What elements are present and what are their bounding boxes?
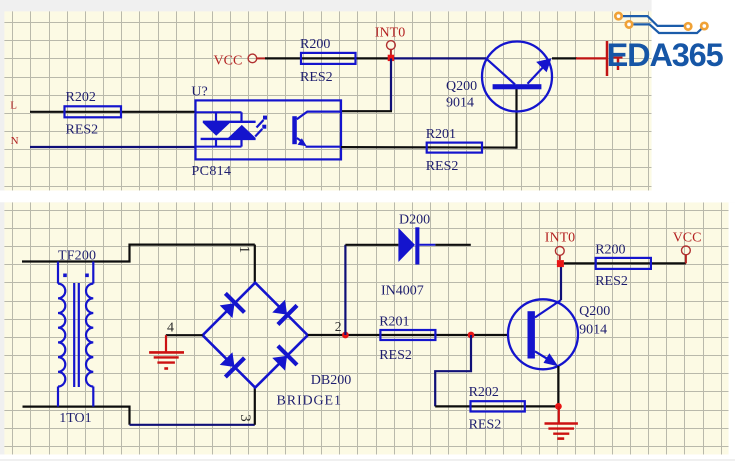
svg-text:R201: R201 — [426, 127, 456, 142]
svg-text:R202: R202 — [66, 90, 96, 105]
svg-text:Q200: Q200 — [579, 304, 610, 319]
svg-text:3: 3 — [237, 414, 253, 422]
white right margin of bottom sheet — [729, 202, 735, 454]
power bar — [606, 41, 609, 76]
bottom schematic sheet — [4, 202, 728, 454]
svg-text:D200: D200 — [399, 213, 430, 228]
svg-text:Q200: Q200 — [446, 79, 477, 94]
diode D200 — [398, 228, 415, 262]
opto LED pair — [196, 112, 267, 146]
svg-text:9014: 9014 — [579, 322, 607, 337]
junction INT0 (bottom) — [557, 260, 564, 267]
logo pad 1 — [615, 13, 621, 19]
svg-text:U?: U? — [191, 85, 207, 100]
wire bridge pin1 drop — [254, 245, 256, 283]
logo pad 4 — [701, 23, 707, 29]
wire junction up to D200 — [344, 245, 346, 335]
svg-text:R201: R201 — [379, 315, 409, 330]
junction at pin2 — [342, 332, 349, 339]
bridge diode bottom-right — [269, 346, 297, 374]
wire to D200 anode — [345, 244, 398, 246]
svg-text:RES2: RES2 — [426, 159, 459, 174]
svg-text:DB200: DB200 — [311, 373, 351, 388]
bottom sheet grid — [4, 202, 728, 454]
junction emitter/R202 — [555, 403, 562, 410]
white bottom band — [0, 455, 735, 460]
svg-text:RES2: RES2 — [300, 70, 333, 85]
white gap band between sheets — [0, 191, 735, 203]
svg-text:R200: R200 — [595, 242, 625, 257]
resistor R202 — [65, 106, 122, 117]
top schematic sheet — [4, 11, 651, 190]
svg-text:VCC: VCC — [673, 230, 702, 245]
optocoupler U? box — [196, 100, 342, 159]
wire INT0 to R200 to VCC — [564, 262, 686, 264]
svg-text:INT0: INT0 — [545, 230, 575, 245]
ground (emitter) — [545, 406, 578, 438]
wire emitter down — [557, 366, 559, 406]
wire opto collector — [341, 110, 392, 112]
wire collector up to INT0 junction — [560, 264, 562, 300]
junction R201 out — [468, 332, 475, 339]
svg-text:RES2: RES2 — [66, 123, 99, 138]
svg-text:INT0: INT0 — [375, 26, 405, 41]
transformer TF200 — [58, 262, 93, 407]
wire junction down to opto collector — [390, 58, 392, 111]
logo pad 2 — [626, 21, 632, 27]
wire R201 up to transistor base — [515, 88, 517, 149]
svg-text:N: N — [11, 135, 19, 147]
resistor R200 (bottom) — [596, 258, 651, 269]
svg-text:9014: 9014 — [446, 96, 474, 111]
bridge diode top-right — [269, 297, 297, 325]
svg-text:L: L — [10, 100, 17, 112]
junction INT0 — [388, 55, 394, 61]
bridge diode top-left — [217, 293, 245, 321]
svg-text:1TO1: 1TO1 — [59, 411, 91, 426]
logo pad 3 — [685, 23, 691, 29]
logo trace 2 — [633, 24, 704, 33]
transistor Q200 (bottom) — [508, 299, 578, 369]
svg-text:BRIDGE1: BRIDGE1 — [277, 393, 342, 408]
wire D200 cathode stub — [435, 244, 470, 246]
top sheet grid — [4, 11, 651, 190]
wire INT0 to transistor — [391, 57, 486, 59]
wire loop junction to R202 — [435, 335, 471, 406]
svg-text:RES2: RES2 — [595, 274, 628, 289]
svg-text:RES2: RES2 — [379, 348, 412, 363]
svg-text:PC814: PC814 — [192, 164, 232, 179]
small power stub under logo — [614, 57, 623, 59]
transistor Q200 (top) — [482, 42, 552, 112]
svg-text:TF200: TF200 — [58, 248, 96, 263]
resistor R201 — [427, 143, 482, 153]
wire L to opto — [30, 111, 196, 113]
svg-text:1: 1 — [236, 246, 252, 253]
svg-text:4: 4 — [167, 321, 174, 336]
bridge diode bottom-left — [217, 349, 245, 377]
wire pin2 to R201 to Q200 base — [308, 334, 508, 336]
wire N to opto — [30, 146, 196, 148]
logo trace 1 — [623, 16, 685, 26]
wire pin4 to ground — [166, 334, 203, 336]
svg-text:EDA365: EDA365 — [607, 37, 724, 73]
wire opto emitter to R201 — [341, 146, 517, 149]
white logo background box — [652, 0, 735, 202]
svg-text:IN4007: IN4007 — [381, 284, 424, 299]
wire collector to power bar — [552, 57, 577, 59]
bridge DB200 diamond — [203, 283, 308, 388]
ground (bridge) — [149, 335, 184, 368]
wire VCC to INT0 junction — [265, 57, 391, 59]
svg-text:RES2: RES2 — [469, 418, 502, 433]
svg-text:R200: R200 — [300, 37, 330, 52]
wire bottom-left loop to bridge pin3 — [23, 407, 130, 425]
opto phototransistor — [292, 112, 341, 147]
svg-text:2: 2 — [335, 319, 342, 334]
resistor R202 (bottom) — [471, 401, 525, 411]
resistor R200 — [301, 53, 356, 64]
wire R202 run — [435, 405, 559, 407]
resistor R201 (bottom) — [380, 330, 435, 340]
wire top-left to bridge pin1 — [22, 245, 255, 262]
svg-text:R202: R202 — [469, 385, 499, 400]
svg-text:VCC: VCC — [214, 54, 243, 69]
